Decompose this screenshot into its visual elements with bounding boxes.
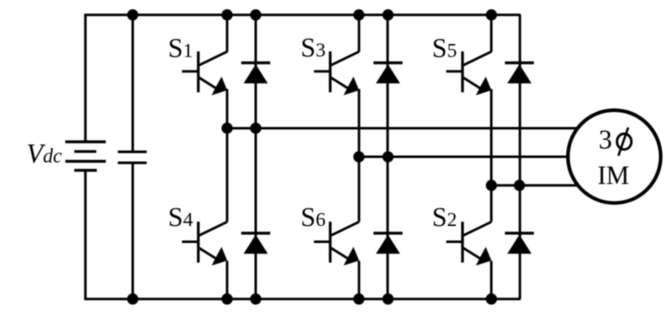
svg-text:S2: S2 bbox=[432, 202, 457, 232]
svg-text:S3: S3 bbox=[301, 33, 326, 63]
svg-text:S5: S5 bbox=[432, 33, 457, 63]
svg-text:IM: IM bbox=[598, 161, 630, 190]
svg-text:S1: S1 bbox=[168, 33, 193, 63]
svg-text:S4: S4 bbox=[168, 202, 193, 232]
svg-text:Vdc: Vdc bbox=[27, 138, 63, 168]
svg-text:3: 3 bbox=[599, 125, 613, 155]
svg-text:S6: S6 bbox=[301, 202, 326, 232]
